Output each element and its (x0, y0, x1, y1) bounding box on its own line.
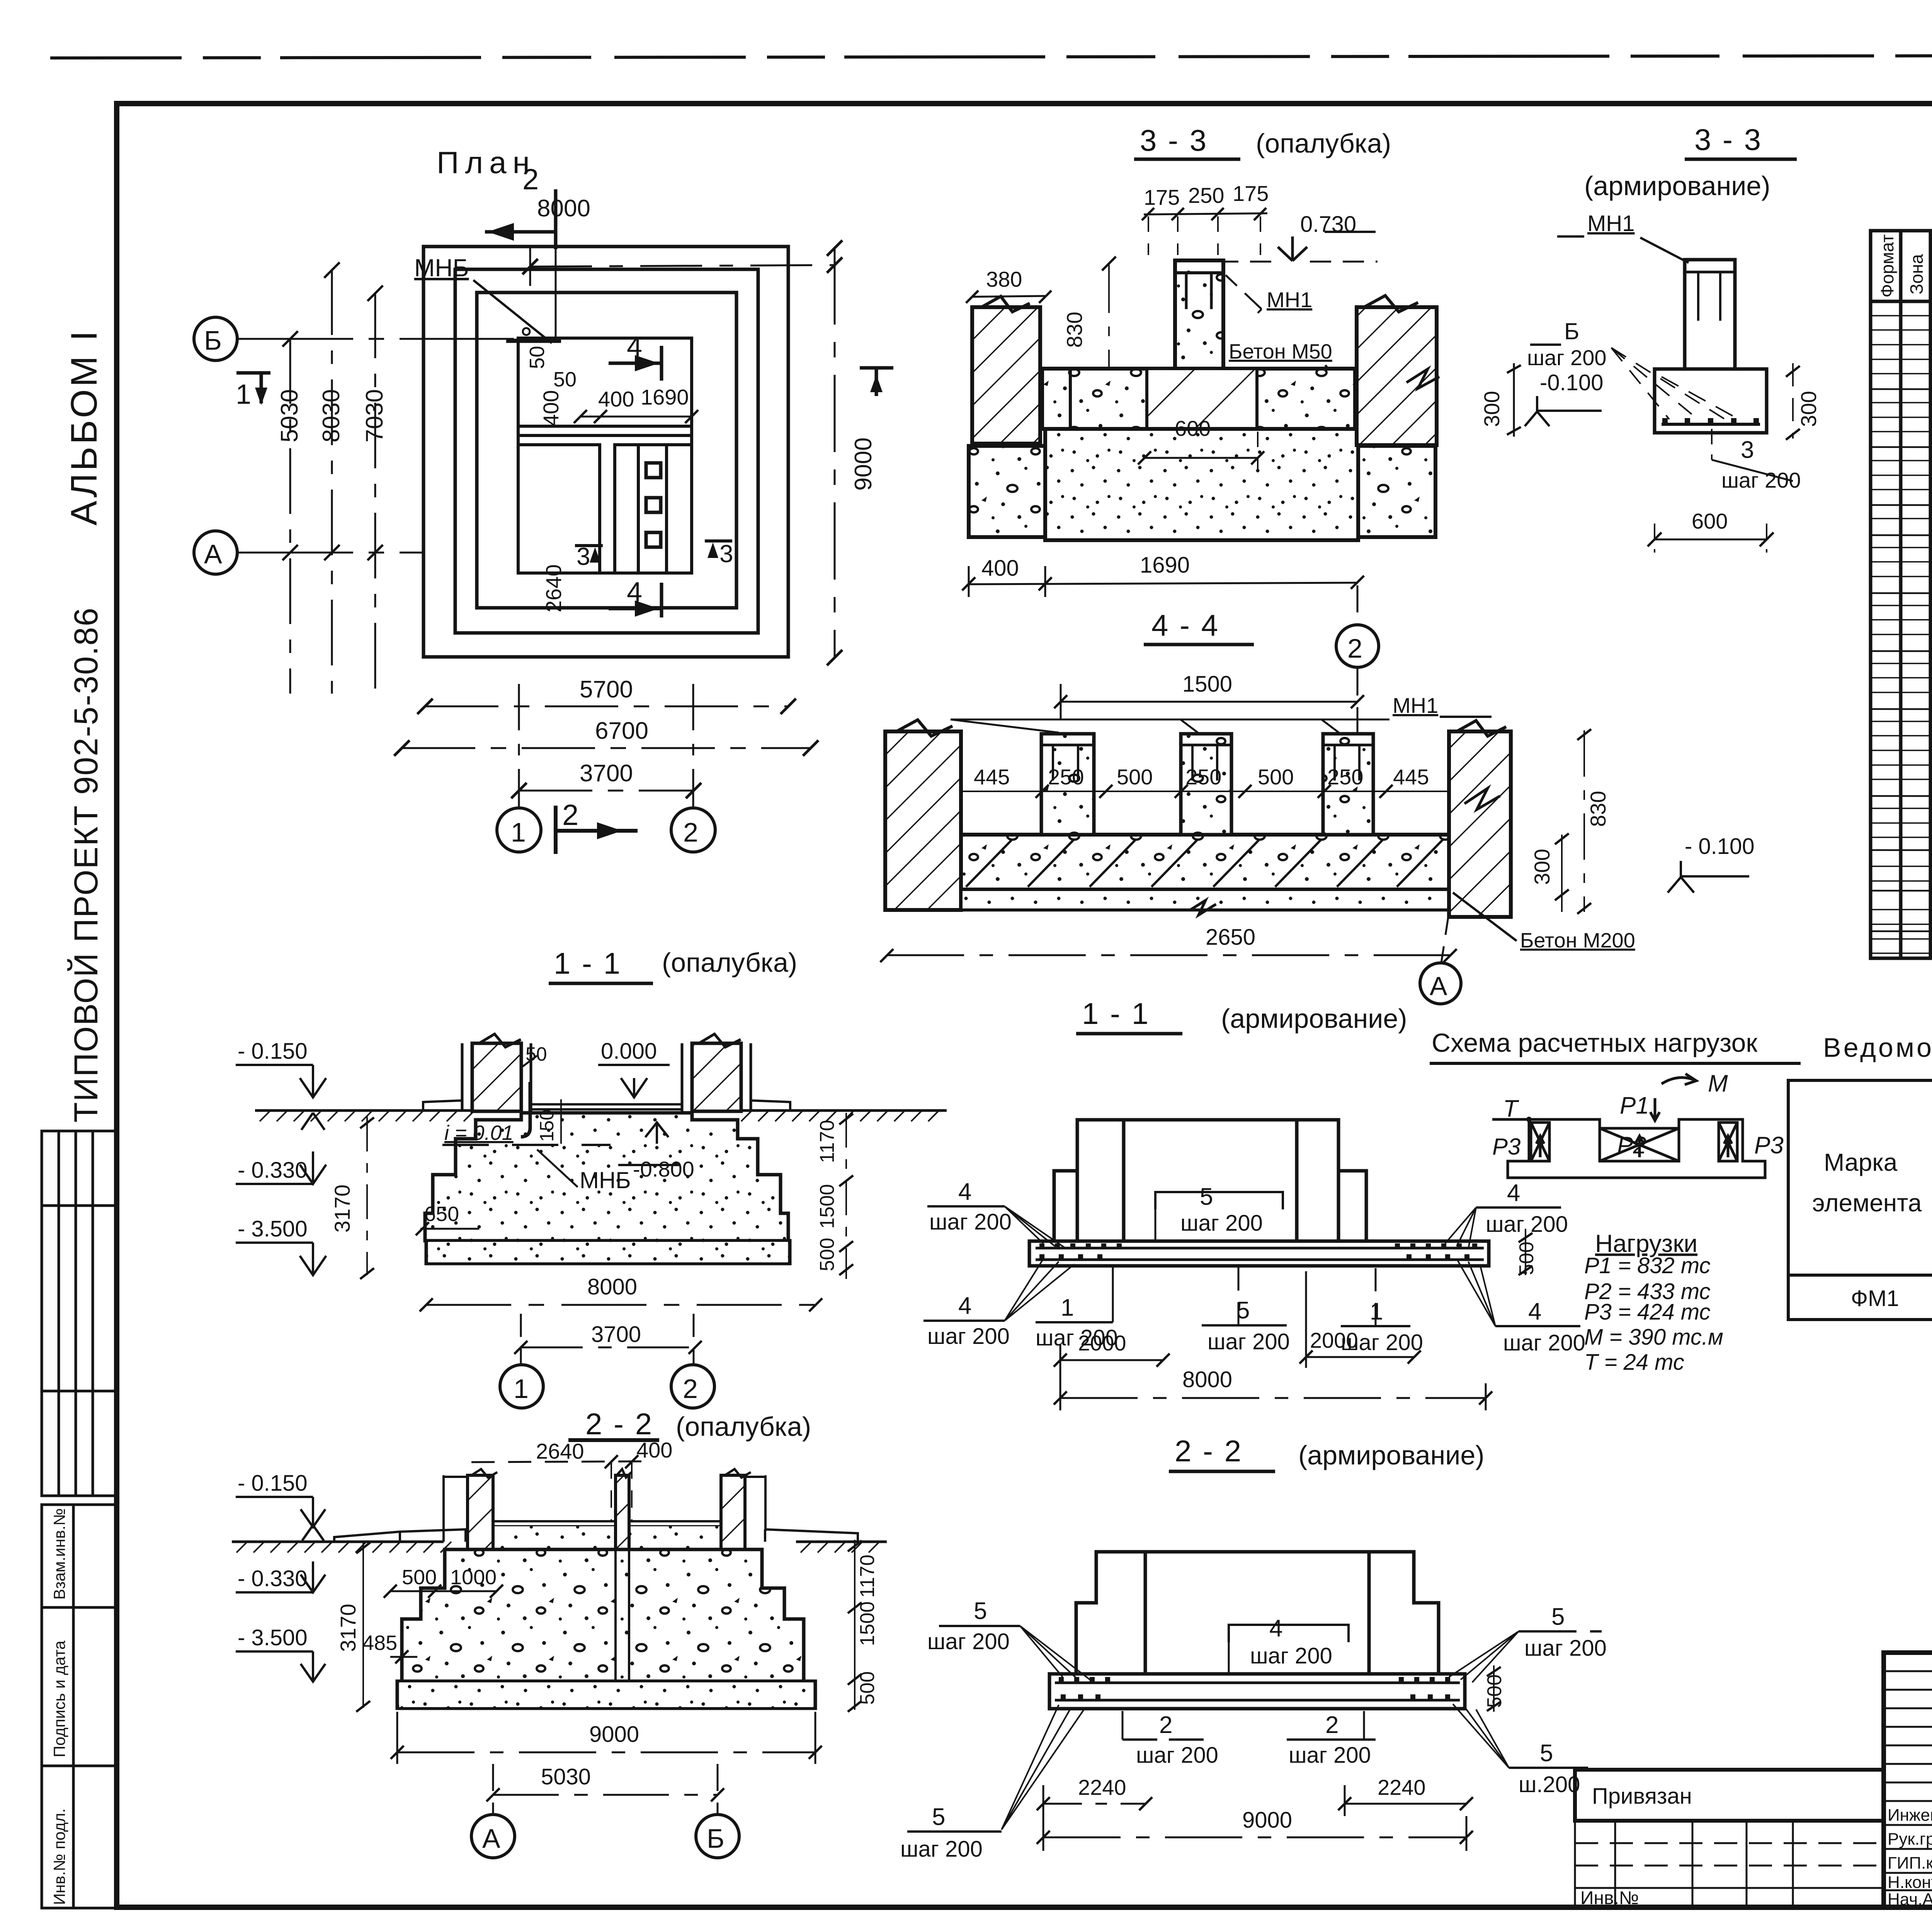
right hatched wall (1449, 731, 1511, 917)
svg-text:шаг 200: шаг 200 (1250, 1643, 1332, 1668)
svg-text:Бетон М200: Бетон М200 (1520, 929, 1635, 952)
horizontal formwork boards between piers (493, 1521, 721, 1526)
svg-text:4: 4 (1528, 1298, 1541, 1325)
label 3 shag 200 (1711, 429, 1713, 460)
svg-text:3 - 3: 3 - 3 (1694, 122, 1762, 156)
svg-text:Б: Б (204, 325, 222, 355)
svg-text:175: 175 (1144, 185, 1180, 209)
svg-text:50: 50 (526, 346, 549, 369)
svg-text:(армирование): (армирование) (1221, 1003, 1407, 1034)
footing outline (1655, 369, 1767, 433)
svg-text:Привязан: Привязан (1592, 1784, 1692, 1809)
svg-text:2: 2 (522, 163, 539, 196)
svg-text:А: А (482, 1823, 500, 1854)
svg-text:9000: 9000 (589, 1722, 639, 1747)
svg-text:шаг 200: шаг 200 (1721, 468, 1801, 492)
svg-text:5: 5 (1200, 1184, 1213, 1210)
svg-text:ФМ1: ФМ1 (1851, 1286, 1899, 1311)
formwork boards beside piers (444, 1475, 765, 1542)
right vertical dim 9000 (834, 247, 836, 657)
svg-text:Р2: Р2 (1617, 1132, 1646, 1159)
svg-text:2: 2 (562, 799, 578, 832)
svg-text:- 0.150: - 0.150 (238, 1471, 308, 1496)
svg-text:шаг 200: шаг 200 (1524, 1636, 1607, 1661)
axis circles 1 2 (520, 1314, 522, 1365)
stepped body outline (1054, 1120, 1366, 1241)
svg-text:8000: 8000 (1182, 1367, 1232, 1392)
left attachment: Привязан box (1575, 1770, 1884, 1821)
svg-text:5: 5 (1551, 1604, 1565, 1630)
svg-text:4 - 4: 4 - 4 (1151, 608, 1219, 642)
bottom prep layer (961, 889, 1449, 910)
svg-text:- 0.330: - 0.330 (238, 1566, 308, 1591)
concrete band under boards (493, 1526, 616, 1549)
svg-text:5: 5 (1540, 1740, 1553, 1767)
svg-text:шаг 200: шаг 200 (900, 1837, 983, 1862)
svg-text:2640: 2640 (541, 564, 566, 612)
svg-text:5030: 5030 (276, 389, 303, 442)
svg-text:400: 400 (539, 390, 563, 426)
svg-text:500: 500 (402, 1566, 437, 1589)
svg-text:8000: 8000 (537, 195, 590, 222)
svg-text:Взам.инв.№: Взам.инв.№ (50, 1508, 68, 1600)
big concrete mass (1045, 429, 1358, 540)
svg-text:250: 250 (1188, 183, 1224, 207)
svg-text:(опалубка): (опалубка) (1256, 128, 1391, 158)
svg-text:8030: 8030 (318, 389, 345, 442)
section mark 4 top (609, 346, 662, 381)
svg-text:2: 2 (1347, 633, 1362, 663)
svg-text:1 - 1: 1 - 1 (1082, 997, 1150, 1031)
svg-text:3700: 3700 (580, 760, 633, 787)
stepped body outline (1076, 1552, 1439, 1674)
footing mass (425, 1113, 788, 1241)
MNB pocket (521, 1082, 530, 1137)
svg-text:шаг 200: шаг 200 (929, 1209, 1012, 1235)
three piers (468, 1475, 493, 1549)
svg-text:А: А (1430, 971, 1447, 1001)
bottom rebar (1662, 423, 1760, 426)
left vertical dims 5030 8030 7030 (290, 269, 375, 694)
svg-text:шаг 200: шаг 200 (1289, 1743, 1371, 1768)
svg-text:4: 4 (627, 577, 642, 608)
svg-text:Б: Б (1564, 318, 1579, 344)
svg-text:1500: 1500 (856, 1601, 879, 1646)
svg-text:шаг 200: шаг 200 (1180, 1211, 1263, 1236)
svg-text:- 3.500: - 3.500 (238, 1216, 308, 1242)
load arrows (1536, 1074, 1732, 1157)
svg-text:1170: 1170 (856, 1554, 879, 1598)
svg-text:2 - 2: 2 - 2 (585, 1407, 653, 1441)
svg-text:(армирование): (армирование) (1584, 171, 1770, 201)
base slab with rebar (1049, 1674, 1465, 1709)
formwork planks at grade (334, 1529, 858, 1542)
svg-text:элемента: элемента (1812, 1189, 1922, 1217)
left hatched wall (972, 307, 1040, 444)
svg-text:Т = 24 тс: Т = 24 тс (1584, 1350, 1684, 1375)
svg-text:шаг 200: шаг 200 (1503, 1330, 1585, 1355)
svg-text:ГИП.конс: ГИП.конс (1888, 1854, 1932, 1872)
svg-text:400: 400 (981, 556, 1019, 581)
pier outline (1685, 260, 1735, 369)
svg-text:3 - 3: 3 - 3 (1140, 123, 1208, 157)
base slab (397, 1681, 815, 1708)
svg-text:шаг 200: шаг 200 (1136, 1743, 1218, 1768)
svg-text:- 0.100: - 0.100 (1685, 834, 1755, 859)
svg-text:1: 1 (1061, 1294, 1074, 1321)
right hatched wall (1357, 307, 1437, 445)
svg-text:8000: 8000 (587, 1274, 637, 1299)
svg-text:3700: 3700 (591, 1322, 641, 1347)
svg-text:шаг 200: шаг 200 (927, 1629, 1010, 1654)
svg-text:МН1: МН1 (1587, 211, 1634, 236)
svg-text:(армирование): (армирование) (1298, 1440, 1485, 1470)
footing mass (402, 1549, 804, 1681)
svg-text:шаг 200: шаг 200 (1486, 1212, 1568, 1237)
vedomost data row (1851, 1286, 1932, 1311)
signature table (1884, 1653, 1932, 1907)
concrete slab (961, 835, 1449, 889)
axis circles 1 2 below (518, 684, 520, 808)
svg-text:шаг 200: шаг 200 (927, 1324, 1010, 1349)
section mark 4 bottom (609, 583, 662, 617)
svg-text:Формат: Формат (1877, 235, 1897, 298)
svg-text:1690: 1690 (641, 385, 689, 409)
svg-text:485: 485 (362, 1631, 397, 1655)
axis B circle (194, 317, 237, 361)
svg-text:Бетон М50: Бетон М50 (1229, 340, 1332, 363)
svg-text:- 0.330: - 0.330 (238, 1158, 308, 1183)
svg-text:600: 600 (1692, 509, 1728, 533)
base slab (426, 1241, 790, 1264)
svg-text:500: 500 (1258, 765, 1294, 789)
plan outer rectangles (423, 247, 788, 657)
ground line (232, 1541, 444, 1543)
svg-text:ш.200: ш.200 (1519, 1772, 1580, 1797)
dashed refs beside middle pier (611, 1461, 632, 1520)
svg-text:445: 445 (1393, 765, 1429, 789)
concrete strip (1042, 369, 1355, 429)
svg-text:0.000: 0.000 (601, 1039, 657, 1064)
earth hatch ticks (260, 1111, 939, 1121)
left column (472, 1043, 521, 1111)
base slab with rebar (1029, 1241, 1489, 1266)
svg-text:250: 250 (1185, 765, 1221, 789)
svg-text:Р3: Р3 (1754, 1132, 1784, 1159)
svg-text:Нач.АСО: Нач.АСО (1888, 1890, 1932, 1909)
section mark 3 left (575, 544, 603, 547)
svg-text:4: 4 (1269, 1615, 1282, 1642)
svg-text:7030: 7030 (361, 389, 388, 442)
svg-text:- 0.150: - 0.150 (238, 1039, 308, 1064)
spec table grid (1871, 231, 1932, 958)
left bottom block (969, 446, 1045, 537)
plan inner pit (518, 338, 692, 573)
svg-text:Ведомость расхода стали н: Ведомость расхода стали на конструкцию к… (1823, 1032, 1932, 1063)
svg-text:4: 4 (958, 1293, 971, 1319)
svg-text:Инв.№ подл.: Инв.№ подл. (50, 1808, 68, 1905)
vedomost grid (1788, 1080, 1932, 1320)
svg-text:МН1: МН1 (1393, 693, 1438, 718)
svg-text:4: 4 (958, 1179, 971, 1205)
axis circle A (1420, 963, 1461, 1004)
svg-text:50: 50 (553, 368, 577, 391)
svg-text:- 3.500: - 3.500 (238, 1625, 308, 1650)
svg-text:9000: 9000 (850, 437, 877, 491)
svg-text:-0.800: -0.800 (633, 1157, 694, 1181)
svg-text:План: План (437, 145, 536, 180)
svg-text:2650: 2650 (1206, 925, 1255, 950)
svg-text:Б: Б (707, 1823, 724, 1854)
pier MN1 (1175, 260, 1223, 369)
right column (692, 1043, 741, 1111)
ground line (255, 1109, 476, 1112)
svg-text:2640: 2640 (536, 1439, 584, 1463)
stamp outer boxes (1884, 1653, 1932, 1907)
svg-text:300: 300 (1796, 391, 1821, 427)
svg-text:600: 600 (1175, 416, 1211, 440)
svg-text:T: T (1503, 1095, 1519, 1122)
spec dense left rows (1871, 316, 1932, 953)
svg-text:3: 3 (577, 543, 590, 570)
plan section mark 2 top (485, 189, 556, 249)
svg-text:Марка: Марка (1824, 1148, 1898, 1176)
svg-text:Зона: Зона (1906, 254, 1927, 294)
svg-text:9000: 9000 (1242, 1808, 1292, 1833)
svg-text:3: 3 (1741, 437, 1754, 463)
svg-text:300: 300 (1530, 849, 1554, 885)
svg-text:1500: 1500 (1182, 672, 1232, 697)
svg-text:Схема расчетных нагрузок: Схема расчетных нагрузок (1432, 1028, 1758, 1058)
plan rail squares (646, 463, 661, 547)
svg-text:1: 1 (236, 379, 251, 410)
left hatched wall (885, 731, 961, 910)
svg-text:шаг 200: шаг 200 (1527, 345, 1607, 370)
svg-text:3: 3 (719, 540, 733, 568)
load scheme footing sketch (1492, 1119, 1765, 1178)
svg-text:Р1: Р1 (1620, 1092, 1649, 1119)
svg-text:1000: 1000 (450, 1566, 497, 1589)
svg-text:1500: 1500 (816, 1184, 838, 1229)
svg-text:2: 2 (1325, 1712, 1338, 1738)
left attachment: lower grid (1575, 1821, 1884, 1907)
svg-text:380: 380 (986, 267, 1022, 291)
svg-text:500: 500 (816, 1238, 838, 1271)
svg-text:Н.контр.: Н.контр. (1888, 1873, 1932, 1892)
svg-text:МН1: МН1 (1267, 287, 1312, 312)
svg-text:5: 5 (974, 1598, 987, 1624)
mid dim row (961, 791, 1449, 792)
svg-text:830: 830 (1062, 312, 1087, 348)
svg-text:М = 390 тс.м: М = 390 тс.м (1584, 1325, 1723, 1350)
svg-text:5: 5 (932, 1804, 945, 1830)
svg-text:ТИПОВОЙ ПРОЕКТ 902-5-30.86: ТИПОВОЙ ПРОЕКТ 902-5-30.86 (67, 607, 105, 1122)
svg-text:М: М (1708, 1070, 1728, 1097)
svg-text:175: 175 (1233, 181, 1269, 206)
svg-text:250: 250 (1048, 765, 1084, 789)
svg-text:Инв.№: Инв.№ (1580, 1888, 1639, 1908)
svg-text:830: 830 (1586, 791, 1610, 827)
svg-text:2240: 2240 (1078, 1775, 1126, 1799)
svg-text:250: 250 (1327, 765, 1363, 789)
svg-text:4: 4 (1507, 1180, 1520, 1206)
bent rebar diagonals (1662, 377, 1739, 419)
svg-text:Инженер: Инженер (1888, 1806, 1932, 1825)
svg-text:i = 0.01: i = 0.01 (444, 1121, 514, 1145)
svg-text:400: 400 (636, 1438, 672, 1462)
svg-text:Рук.гр.: Рук.гр. (1888, 1830, 1932, 1849)
svg-text:Подпись и дата: Подпись и дата (50, 1640, 68, 1757)
svg-text:Р3: Р3 (1492, 1134, 1520, 1160)
svg-text:6700: 6700 (595, 718, 648, 744)
three piers (1041, 734, 1373, 835)
spec table row lines (1871, 389, 1932, 932)
svg-text:2: 2 (683, 817, 698, 847)
svg-text:(опалубка): (опалубка) (676, 1412, 811, 1442)
svg-text:2 - 2: 2 - 2 (1175, 1434, 1243, 1468)
svg-text:500: 500 (1117, 765, 1153, 789)
svg-text:-0.100: -0.100 (1540, 370, 1603, 395)
svg-text:АЛЬБОМ I: АЛЬБОМ I (63, 328, 105, 526)
section mark 1 left (236, 373, 270, 403)
svg-text:1: 1 (514, 1374, 529, 1404)
svg-text:2000: 2000 (1078, 1331, 1126, 1355)
axis A circle (194, 531, 237, 574)
svg-text:400: 400 (598, 387, 634, 411)
right bottom block (1358, 446, 1435, 537)
svg-text:4: 4 (627, 332, 642, 362)
svg-text:1: 1 (511, 817, 526, 847)
svg-text:1170: 1170 (816, 1120, 838, 1163)
section mark 1 right (860, 368, 893, 396)
svg-text:150: 150 (536, 1110, 558, 1142)
axis circles A B (492, 1764, 494, 1815)
svg-text:3170: 3170 (336, 1604, 360, 1652)
svg-text:650: 650 (424, 1202, 459, 1226)
planks at grade (423, 1100, 790, 1111)
svg-text:5030: 5030 (541, 1764, 591, 1789)
svg-text:2: 2 (1159, 1712, 1172, 1738)
svg-text:шаг 200: шаг 200 (1207, 1329, 1290, 1354)
left sidebar upper box (42, 1131, 117, 1496)
svg-text:1690: 1690 (1140, 553, 1190, 578)
svg-text:2: 2 (683, 1374, 698, 1404)
svg-text:0.730: 0.730 (1300, 212, 1356, 237)
svg-text:300: 300 (1480, 391, 1504, 427)
fan leaders left bottom + label 5 shag 200 (1002, 1705, 1083, 1830)
section mark 2 between circles (556, 806, 638, 854)
axis circle 2 (1336, 625, 1379, 667)
svg-text:МНБ: МНБ (580, 1167, 631, 1193)
svg-text:5700: 5700 (580, 676, 633, 703)
svg-text:2240: 2240 (1378, 1775, 1426, 1799)
svg-text:2000: 2000 (1310, 1328, 1358, 1352)
sheet top edge dashed line (50, 55, 1932, 58)
svg-text:3170: 3170 (330, 1184, 354, 1233)
svg-text:1 - 1: 1 - 1 (554, 946, 622, 980)
svg-text:Р3 = 424 тс: Р3 = 424 тс (1584, 1299, 1711, 1325)
svg-text:Р1 = 832 тс: Р1 = 832 тс (1584, 1253, 1711, 1278)
section mark 3 right (705, 539, 732, 543)
svg-text:445: 445 (974, 765, 1010, 789)
left sidebar lower box (Взам.инв. / Подпись и дата / Инв.№ подл.) (42, 1505, 117, 1908)
svg-text:(опалубка): (опалубка) (662, 947, 797, 978)
svg-text:А: А (204, 539, 222, 569)
